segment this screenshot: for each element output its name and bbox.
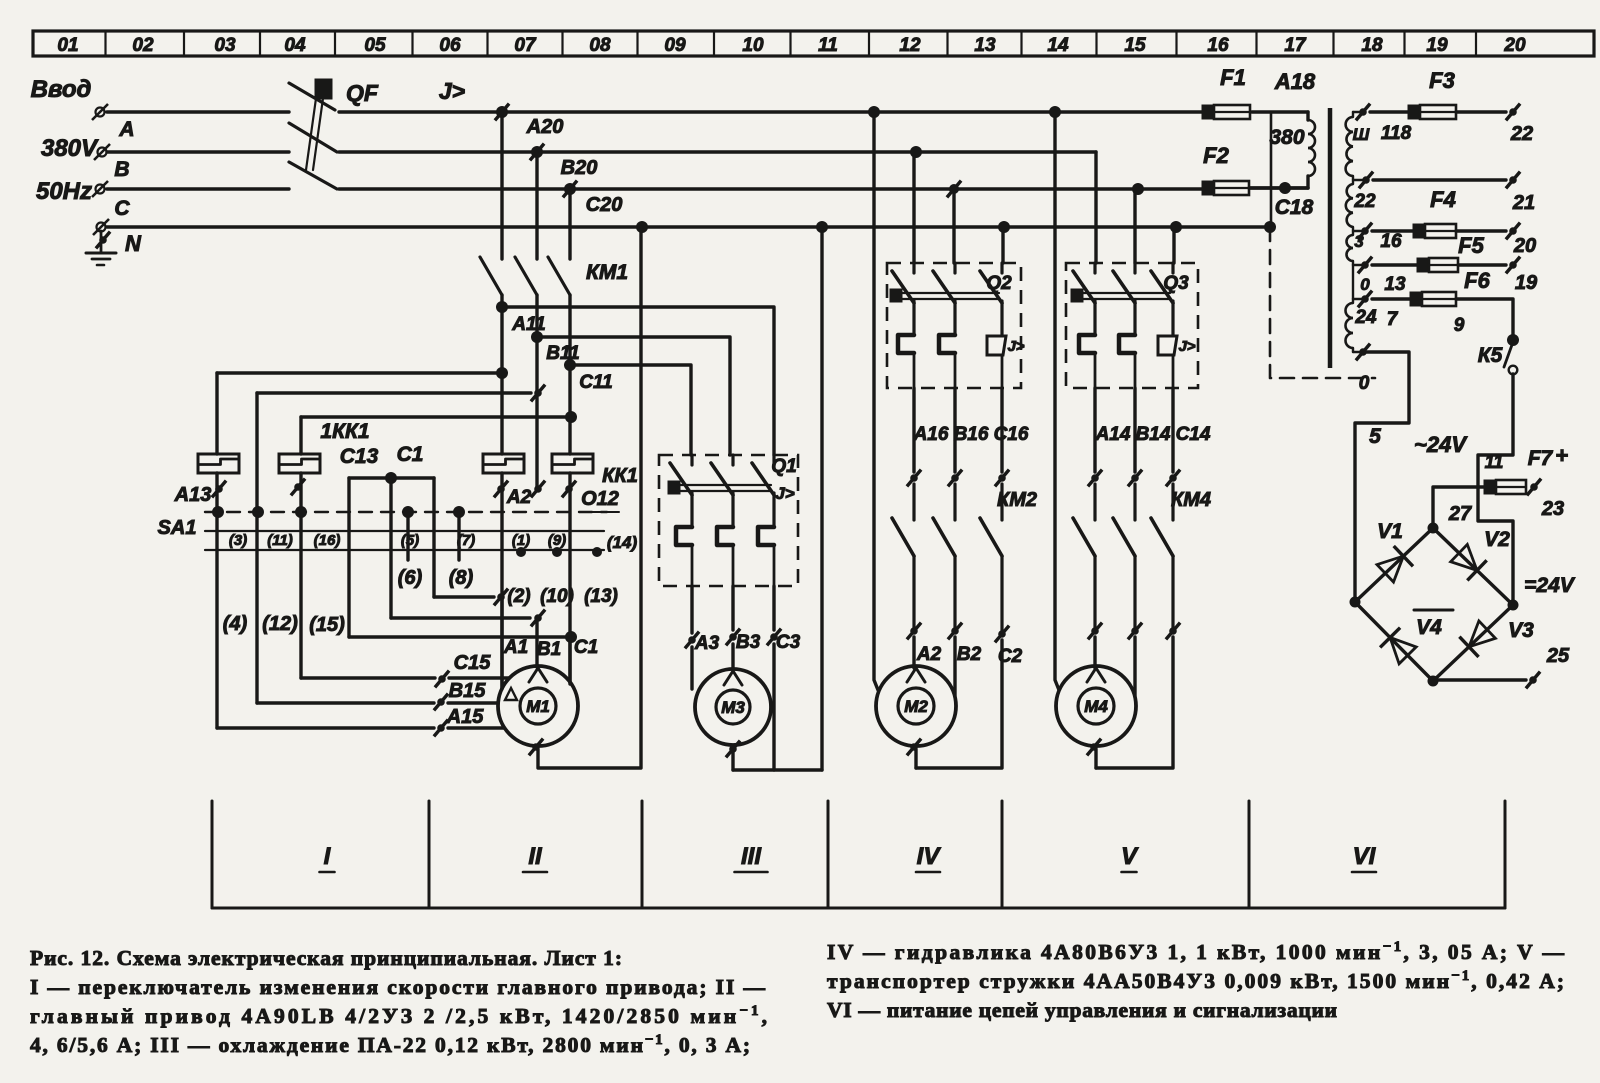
svg-text:B3: B3 <box>736 632 761 653</box>
svg-text:C20: C20 <box>586 194 623 216</box>
svg-text:3: 3 <box>1354 232 1364 251</box>
svg-text:Q1: Q1 <box>771 456 796 477</box>
svg-text:F2: F2 <box>1203 143 1229 168</box>
svg-text:I — переключатель изменения ск: I — переключатель изменения скорости гла… <box>30 975 765 999</box>
svg-text:25: 25 <box>1546 645 1570 667</box>
svg-text:М1: М1 <box>526 697 550 716</box>
svg-text:(2): (2) <box>507 586 530 607</box>
svg-text:F6: F6 <box>1464 268 1490 293</box>
svg-text:А15: А15 <box>446 706 485 728</box>
svg-text:(5): (5) <box>401 532 419 549</box>
svg-text:19: 19 <box>1426 35 1448 56</box>
svg-text:20: 20 <box>1503 35 1526 56</box>
svg-text:Q3: Q3 <box>1163 273 1189 294</box>
svg-text:50Hz: 50Hz <box>36 178 92 205</box>
svg-text:06: 06 <box>439 35 461 56</box>
svg-text:V4: V4 <box>1416 616 1442 639</box>
svg-text:A14: A14 <box>1095 424 1131 445</box>
svg-text:F1: F1 <box>1220 65 1246 90</box>
svg-text:19: 19 <box>1515 272 1538 294</box>
svg-text:12: 12 <box>899 35 921 56</box>
svg-text:14: 14 <box>1047 35 1069 56</box>
svg-text:Ш: Ш <box>1353 125 1370 144</box>
svg-text:A16: A16 <box>913 424 949 445</box>
svg-text:J>: J> <box>439 78 465 104</box>
svg-text:16: 16 <box>1207 35 1229 56</box>
svg-text:380V: 380V <box>41 135 99 162</box>
svg-text:04: 04 <box>284 35 306 56</box>
svg-text:(6): (6) <box>398 567 423 589</box>
svg-text:A2: A2 <box>506 487 532 508</box>
svg-text:А18: А18 <box>1274 69 1316 94</box>
svg-text:B20: B20 <box>561 157 598 179</box>
svg-text:А13: А13 <box>174 484 212 506</box>
svg-text:08: 08 <box>589 35 611 56</box>
svg-text:Q2: Q2 <box>986 273 1012 294</box>
svg-text:22: 22 <box>1510 123 1533 145</box>
svg-text:V1: V1 <box>1377 520 1403 543</box>
svg-text:III: III <box>741 843 762 870</box>
svg-text:4, 6/5,6 А; III — охлаждение: 4, 6/5,6 А; III — охлаждение ПА-22 0,12 … <box>30 1032 750 1057</box>
svg-text:IV: IV <box>917 843 942 870</box>
svg-text:J>: J> <box>1007 338 1024 355</box>
svg-text:01: 01 <box>57 35 78 56</box>
svg-text:A20: A20 <box>526 116 564 138</box>
svg-text:F5: F5 <box>1458 233 1484 258</box>
svg-text:(8): (8) <box>449 567 474 589</box>
svg-text:09: 09 <box>664 35 686 56</box>
svg-text:22: 22 <box>1353 191 1376 212</box>
svg-text:(9): (9) <box>548 532 566 549</box>
svg-text:13: 13 <box>1384 274 1406 295</box>
svg-text:A1: A1 <box>503 637 528 658</box>
svg-text:03: 03 <box>214 35 236 56</box>
svg-text:1КК1: 1КК1 <box>320 420 369 443</box>
svg-text:380: 380 <box>1269 126 1304 149</box>
svg-text:B2: B2 <box>957 644 982 665</box>
svg-text:+: + <box>1556 443 1569 468</box>
svg-text:13: 13 <box>974 35 996 56</box>
svg-text:F4: F4 <box>1430 187 1456 212</box>
svg-text:18: 18 <box>1361 35 1383 56</box>
svg-text:C16: C16 <box>994 424 1029 445</box>
svg-text:A11: A11 <box>511 314 545 335</box>
svg-text:М3: М3 <box>721 698 745 717</box>
svg-text:24: 24 <box>1354 307 1377 328</box>
svg-text:B: B <box>114 158 129 181</box>
svg-text:II: II <box>528 843 543 870</box>
svg-text:V: V <box>1121 843 1139 870</box>
svg-text:М4: М4 <box>1084 697 1108 716</box>
svg-text:V3: V3 <box>1508 619 1534 642</box>
svg-text:=24V: =24V <box>1524 574 1576 597</box>
svg-text:17: 17 <box>1284 35 1307 56</box>
svg-text:VI — питание цепей управления: VI — питание цепей управления и сигнализ… <box>827 998 1337 1022</box>
svg-text:0: 0 <box>1360 275 1370 294</box>
svg-text:16: 16 <box>1380 231 1402 252</box>
svg-text:С13: С13 <box>340 445 379 468</box>
svg-text:23: 23 <box>1541 498 1564 520</box>
svg-text:F3: F3 <box>1429 68 1455 93</box>
svg-text:05: 05 <box>364 35 386 56</box>
svg-text:118: 118 <box>1381 123 1412 144</box>
svg-text:(12): (12) <box>262 613 298 635</box>
svg-text:C3: C3 <box>776 632 801 653</box>
svg-text:КМ4: КМ4 <box>1171 489 1211 511</box>
svg-text:(11): (11) <box>267 532 293 549</box>
svg-text:Рис. 12. Схема электрическая п: Рис. 12. Схема электрическая принципиаль… <box>30 946 622 970</box>
svg-text:C11: C11 <box>579 372 612 393</box>
svg-text:F7: F7 <box>1528 447 1554 470</box>
svg-text:02: 02 <box>132 35 154 56</box>
svg-text:07: 07 <box>514 35 537 56</box>
svg-text:15: 15 <box>1124 35 1146 56</box>
svg-text:О12: О12 <box>581 488 619 510</box>
svg-text:(13): (13) <box>584 586 618 607</box>
svg-text:(4): (4) <box>223 613 248 635</box>
svg-text:КК1: КК1 <box>602 465 638 487</box>
svg-text:B14: B14 <box>1136 424 1171 445</box>
svg-text:VI: VI <box>1353 843 1377 870</box>
svg-text:11: 11 <box>818 35 838 56</box>
svg-text:(15): (15) <box>309 614 345 636</box>
svg-text:SA1: SA1 <box>158 517 197 539</box>
svg-text:10: 10 <box>742 35 764 56</box>
svg-text:A: A <box>118 118 134 141</box>
svg-text:N: N <box>125 231 142 256</box>
svg-text:C1: C1 <box>574 637 598 658</box>
svg-text:КМ1: КМ1 <box>586 261 628 284</box>
svg-text:~24V: ~24V <box>1414 432 1468 457</box>
svg-text:М2: М2 <box>904 697 928 716</box>
svg-text:С18: С18 <box>1275 196 1314 219</box>
svg-text:21: 21 <box>1512 192 1535 214</box>
svg-text:11: 11 <box>1485 452 1504 472</box>
svg-text:(3): (3) <box>229 532 247 549</box>
svg-text:QF: QF <box>346 80 379 106</box>
svg-text:7: 7 <box>1387 309 1399 330</box>
svg-text:C: C <box>114 197 130 220</box>
svg-text:J>: J> <box>775 484 794 503</box>
svg-text:КМ2: КМ2 <box>997 489 1037 511</box>
svg-text:К5: К5 <box>1478 344 1503 367</box>
svg-text:(10): (10) <box>540 586 574 607</box>
svg-text:J>: J> <box>1178 338 1195 355</box>
svg-text:C14: C14 <box>1176 424 1211 445</box>
svg-text:IV — гидравлика 4А80В6У3 1, 1: IV — гидравлика 4А80В6У3 1, 1 кВт, 1000 … <box>827 939 1565 964</box>
svg-text:B11: B11 <box>546 343 579 364</box>
svg-text:В15: В15 <box>449 680 487 702</box>
svg-text:(14): (14) <box>607 533 638 552</box>
svg-text:5: 5 <box>1369 425 1381 448</box>
svg-text:(16): (16) <box>314 532 341 549</box>
svg-text:0: 0 <box>1359 373 1370 394</box>
svg-text:A2: A2 <box>916 644 942 665</box>
svg-text:С1: С1 <box>397 443 424 466</box>
svg-text:B16: B16 <box>954 424 989 445</box>
svg-text:(1): (1) <box>512 532 530 549</box>
svg-text:B1: B1 <box>537 639 561 660</box>
svg-text:9: 9 <box>1454 315 1465 336</box>
svg-text:20: 20 <box>1513 235 1536 257</box>
svg-text:V2: V2 <box>1484 528 1510 551</box>
svg-text:A3: A3 <box>694 633 720 654</box>
svg-text:С15: С15 <box>454 652 492 674</box>
svg-text:Ввод: Ввод <box>31 76 92 103</box>
svg-text:27: 27 <box>1448 503 1472 525</box>
